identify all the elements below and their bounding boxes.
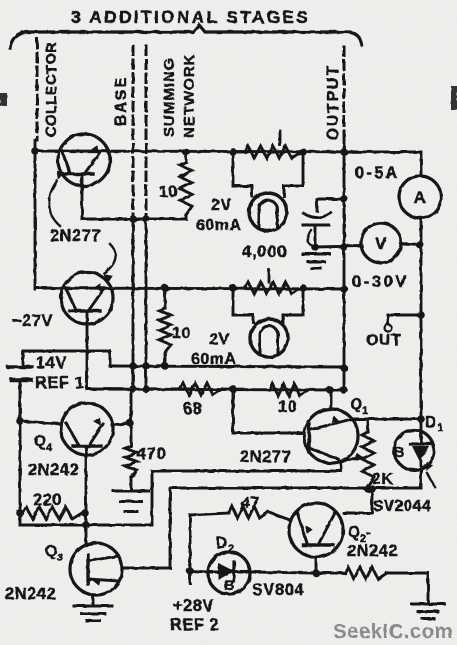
- svg-text:SeekIC.com: SeekIC.com: [333, 620, 453, 643]
- svg-text:2V: 2V: [211, 197, 232, 214]
- svg-text:Q: Q: [45, 543, 58, 560]
- svg-text:2K: 2K: [372, 471, 393, 488]
- svg-text:2V: 2V: [209, 331, 230, 348]
- svg-text:SV2044: SV2044: [373, 498, 431, 515]
- svg-text:Q: Q: [348, 524, 361, 541]
- svg-text:10: 10: [172, 325, 191, 342]
- svg-text:SUMMING: SUMMING: [161, 58, 178, 138]
- svg-text:+28V: +28V: [173, 597, 214, 615]
- svg-text:B: B: [394, 445, 405, 461]
- svg-text:0-5A: 0-5A: [355, 164, 400, 182]
- svg-text:3 ADDITIONAL STAGES: 3 ADDITIONAL STAGES: [71, 7, 310, 27]
- svg-text:10: 10: [278, 398, 297, 416]
- svg-text:A: A: [414, 188, 427, 207]
- svg-text:2N242: 2N242: [5, 585, 56, 603]
- svg-text:4,000: 4,000: [242, 242, 287, 261]
- svg-text:Q: Q: [350, 396, 363, 413]
- svg-text:220: 220: [33, 491, 62, 509]
- svg-text:47: 47: [241, 495, 260, 512]
- svg-text:V: V: [375, 234, 387, 253]
- svg-text:REF 2: REF 2: [170, 616, 219, 634]
- svg-text:COLLECTOR: COLLECTOR: [44, 42, 60, 137]
- svg-text:0-30V: 0-30V: [352, 273, 409, 291]
- svg-text:14V: 14V: [36, 354, 67, 372]
- svg-text:4: 4: [46, 442, 53, 454]
- svg-text:SV804: SV804: [252, 581, 304, 599]
- svg-text:3: 3: [57, 552, 64, 564]
- svg-text:1: 1: [437, 422, 444, 434]
- svg-text:2N242: 2N242: [28, 461, 79, 479]
- svg-text:68: 68: [183, 400, 202, 418]
- svg-text:1: 1: [362, 405, 369, 417]
- svg-text:OUTPUT: OUTPUT: [325, 64, 342, 140]
- svg-text:60mA: 60mA: [191, 351, 237, 368]
- svg-text:2N277: 2N277: [50, 227, 101, 245]
- svg-text:470: 470: [137, 445, 166, 463]
- svg-text:-: -: [366, 524, 372, 541]
- svg-text:NETWORK: NETWORK: [181, 54, 198, 139]
- svg-text:REF 1: REF 1: [35, 374, 84, 392]
- svg-text:10: 10: [159, 184, 178, 201]
- svg-text:D: D: [425, 414, 437, 431]
- svg-text:2N242: 2N242: [347, 542, 398, 560]
- svg-text:D: D: [216, 535, 228, 552]
- svg-text:Q: Q: [34, 433, 47, 450]
- svg-text:2: 2: [228, 543, 235, 555]
- svg-text:B: B: [224, 578, 235, 594]
- svg-text:2N277: 2N277: [240, 448, 291, 466]
- svg-text:BASE: BASE: [113, 76, 130, 126]
- svg-text:OUT: OUT: [366, 332, 401, 349]
- svg-text:60mA: 60mA: [196, 217, 242, 234]
- svg-text:−27V: −27V: [12, 312, 53, 330]
